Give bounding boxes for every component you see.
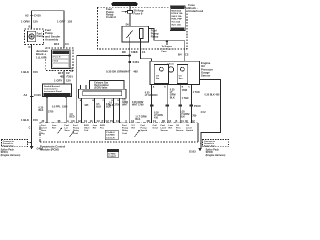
svg-text:Sen: Sen — [179, 78, 184, 80]
svg-text:Speed: Speed — [141, 130, 148, 132]
svg-text:C2=RED: C2=RED — [106, 135, 115, 137]
svg-text:Underhood: Underhood — [188, 9, 203, 13]
svg-text:6B: 6B — [147, 120, 150, 123]
svg-text:C4: C4 — [65, 42, 69, 46]
svg-text:B4: B4 — [178, 52, 182, 56]
svg-text:Ref: Ref — [52, 128, 56, 130]
wire: relay coil ground pin E8 C1 to oil pressure switch — [141, 42, 152, 61]
svg-text:Pump: Pump — [37, 35, 44, 38]
svg-text:2750: 2750 — [48, 111, 54, 114]
svg-text:1788: 1788 — [182, 89, 188, 92]
svg-text:Fuse 8: Fuse 8 — [53, 57, 61, 59]
wire: pump ground 1 BLK 150 down to G401 — [31, 45, 33, 146]
svg-text:A: A — [67, 120, 69, 123]
svg-text:C1 BLU: C1 BLU — [108, 151, 116, 153]
wire: fuel level sensor signal to PCM — [46, 97, 48, 123]
svg-text:FUEL PMP: FUEL PMP — [171, 19, 182, 21]
svg-text:150: 150 — [33, 70, 38, 74]
svg-text:BLK: BLK — [180, 116, 185, 119]
svg-text:Ref: Ref — [169, 128, 173, 130]
svg-text:0.35 DK GRN/WHT: 0.35 DK GRN/WHT — [106, 70, 131, 74]
svg-text:Control: Control — [106, 15, 116, 19]
node splice dot — [65, 96, 67, 98]
svg-text:150: 150 — [33, 118, 38, 122]
fuse F1 fuel pump 20A — [129, 6, 131, 11]
svg-text:Cntl: Cntl — [84, 129, 89, 132]
EGR connector strip — [78, 89, 126, 98]
svg-text:BLK: BLK — [135, 118, 140, 121]
underhood fuse block dashed box — [97, 7, 187, 49]
svg-text:Exhaust Gas: Exhaust Gas — [94, 81, 109, 84]
fuel pump relay K1 — [122, 26, 149, 42]
PCM connector colors box lower — [107, 149, 119, 157]
svg-text:Engine Harn: Engine Harn — [204, 145, 216, 147]
svg-text:C410: C410 — [34, 14, 41, 18]
PCM pin row labels — [42, 120, 196, 123]
PCM fuel level driver arrow — [58, 128, 63, 134]
svg-text:Connector In: Connector In — [44, 88, 58, 91]
oil pressure sensor contact — [181, 67, 185, 71]
svg-text:S161: S161 — [133, 60, 140, 64]
ground G401 symbol — [30, 146, 34, 150]
junction block 1 dashed box — [46, 48, 73, 71]
wire: EGR pin A to PCM — [81, 98, 83, 123]
svg-text:Ref: Ref — [93, 128, 97, 130]
wire: junction block output 1 GRY 120 to connector box — [63, 71, 65, 84]
svg-text:Cntrl: Cntrl — [122, 132, 127, 135]
svg-text:INJ 1 15A: INJ 1 15A — [171, 23, 181, 26]
svg-text:Sens: Sens — [65, 130, 71, 132]
svg-text:2759: 2759 — [115, 103, 121, 106]
wire: oil sensor pin C to P100 to PCM — [190, 85, 192, 123]
PCM internal pin function labels — [41, 125, 194, 135]
svg-text:Fans: Fans — [162, 51, 168, 53]
relay switch contact — [127, 31, 133, 39]
svg-text:120: 120 — [66, 78, 71, 82]
svg-text:IGN E 15A: IGN E 15A — [171, 15, 182, 18]
svg-text:Sensor: Sensor — [201, 74, 211, 78]
gauge symbol — [168, 67, 173, 72]
svg-text:1 ORN: 1 ORN — [21, 20, 30, 24]
svg-text:Fuse 9: Fuse 9 — [134, 11, 143, 15]
wire: relay coil feed to oil pressure sensor — [149, 29, 185, 62]
splice pack SP401 text — [3, 140, 15, 147]
svg-text:BLK: BLK — [96, 106, 101, 109]
svg-text:B: B — [29, 24, 31, 28]
wire: branch left to PCM pin — [77, 56, 130, 123]
splice pack SP400 dashed box — [203, 140, 229, 147]
svg-text:Sensor: Sensor — [176, 130, 184, 132]
ground G103 symbol — [198, 148, 202, 152]
svg-text:MAXI 40A: MAXI 40A — [171, 9, 181, 12]
HOT AT ALL TIMES label — [112, 2, 138, 6]
wire: fuel pump feed 1 GRY 120 from junction block up and left to pump — [32, 11, 64, 48]
svg-text:LT GRN: LT GRN — [145, 94, 154, 97]
svg-text:Recirculation: Recirculation — [94, 84, 109, 87]
wire: 0.35 BLK 450 to ground G103 — [200, 80, 221, 149]
fuel pump and sender assembly dashed box — [25, 29, 44, 45]
svg-text:C3=CLR: C3=CLR — [106, 137, 115, 139]
svg-text:G401: G401 — [37, 147, 44, 151]
wire: EGR pin E to PCM — [119, 98, 121, 123]
svg-text:Assembly: Assembly — [45, 38, 59, 42]
text labels group — [21, 3, 220, 130]
svg-text:A4: A4 — [24, 93, 28, 97]
label powertrain control module — [40, 144, 65, 151]
svg-text:C1: C1 — [142, 50, 146, 54]
splice pack SP400 text — [204, 140, 216, 147]
svg-text:D: D — [29, 45, 31, 49]
node junction — [129, 55, 131, 57]
svg-text:10 A: 10 A — [53, 60, 58, 63]
wire: relay switch output pin B8 C3 down to PCM — [129, 42, 131, 123]
wire: SP401 dashed link — [27, 142, 31, 144]
svg-text:1589: 1589 — [62, 106, 68, 109]
svg-text:C410: C410 — [34, 93, 41, 97]
svg-text:Grnd: Grnd — [153, 128, 159, 130]
svg-text:C1=BLU: C1=BLU — [106, 132, 115, 134]
fuse block inside junction block — [52, 50, 70, 69]
svg-text:C3 WHT: C3 WHT — [108, 156, 117, 158]
svg-text:465: 465 — [133, 70, 138, 74]
PCM connector legend box — [105, 130, 118, 140]
PCM relay driver arrow — [70, 131, 75, 137]
node splice S161 — [129, 61, 131, 63]
svg-text:1 TAN: 1 TAN — [182, 97, 189, 100]
svg-text:Relay: Relay — [151, 35, 159, 39]
wire: EGR pin C to PCM — [103, 98, 105, 123]
svg-text:(Engine Harness): (Engine Harness) — [1, 154, 21, 157]
node splice dot — [46, 96, 48, 98]
svg-text:B: B — [176, 120, 178, 123]
svg-text:FUEL PMP: FUEL PMP — [53, 52, 65, 54]
svg-text:Sensor: Sensor — [161, 130, 169, 132]
svg-text:TCC 15A: TCC 15A — [171, 21, 180, 24]
svg-text:Check: Check — [167, 63, 174, 65]
svg-text:1 GRY: 1 GRY — [57, 19, 65, 23]
to cooling fans reference arrow — [166, 41, 168, 45]
wire: pump supply into assembly — [31, 13, 33, 29]
oil pressure switch contact — [160, 67, 164, 71]
fuse table rows — [171, 7, 185, 31]
svg-text:BLK: BLK — [170, 96, 175, 99]
svg-text:WHT 1799: WHT 1799 — [132, 104, 144, 107]
svg-text:(Engine Harness): (Engine Harness) — [206, 154, 226, 157]
engine oil pressure gauge sensor box — [150, 61, 200, 84]
svg-text:HOT AT ALL TIMES: HOT AT ALL TIMES — [113, 2, 136, 6]
svg-text:C: C — [29, 127, 31, 130]
svg-text:Instrument Panel: Instrument Panel — [44, 90, 62, 93]
svg-text:4 C2: 4 C2 — [201, 111, 207, 114]
connector P100 terminals — [150, 104, 193, 106]
svg-text:BLK: BLK — [109, 104, 114, 107]
svg-text:B10: B10 — [54, 42, 60, 46]
wire: PCM ground to G103 — [197, 138, 199, 142]
svg-text:0.35 BLK 450: 0.35 BLK 450 — [205, 94, 221, 97]
svg-text:P100: P100 — [194, 104, 201, 108]
splice pack SP401 dashed box — [2, 140, 28, 147]
svg-text:Switch: Switch — [186, 129, 194, 132]
svg-text:Ref: Ref — [132, 128, 136, 130]
svg-text:1 BLK: 1 BLK — [21, 118, 29, 122]
wire: SP400 dashed link — [200, 142, 203, 144]
svg-text:1 TAN: 1 TAN — [193, 91, 200, 94]
svg-text:Engine Harn: Engine Harn — [3, 145, 15, 147]
connector C410 note box — [43, 84, 72, 97]
svg-text:4B: 4B — [162, 120, 165, 123]
node A4 C410 connector tick — [30, 96, 34, 98]
relay coil — [140, 29, 144, 39]
svg-text:RED: RED — [69, 116, 74, 119]
oil pressure sensor element — [177, 65, 187, 84]
svg-text:410: 410 — [154, 94, 159, 97]
svg-text:E8: E8 — [134, 50, 138, 54]
node A2 C410 connector tick — [30, 15, 34, 17]
fuse label pointer arrow — [125, 11, 128, 13]
svg-text:Harness C410: Harness C410 — [45, 93, 60, 96]
wire: EGR pin B to PCM — [93, 98, 95, 123]
svg-text:435: 435 — [84, 104, 89, 107]
svg-text:Sw: Sw — [156, 78, 159, 80]
PCM box outline — [40, 123, 198, 142]
svg-text:ECM B 15A: ECM B 15A — [171, 12, 183, 15]
junction block fuse rows — [53, 51, 69, 67]
fuel pump motor M1 — [27, 31, 35, 42]
svg-text:A2: A2 — [25, 14, 29, 18]
wire: oil sensor pin A to P100 to PCM — [151, 85, 153, 123]
svg-text:120: 120 — [68, 19, 73, 23]
svg-text:C2: C2 — [185, 52, 189, 56]
svg-text:B8: B8 — [122, 50, 126, 54]
svg-text:4B: 4B — [57, 120, 60, 123]
svg-text:WHT: WHT — [122, 104, 128, 107]
EGR valve box — [90, 81, 125, 90]
svg-text:1 BLK: 1 BLK — [21, 70, 29, 74]
svg-text:0.5 PPL: 0.5 PPL — [52, 106, 61, 109]
wire: oil sensor pin E to P100 to PCM — [166, 85, 168, 123]
svg-text:1789: 1789 — [191, 115, 197, 118]
EGR pin stubs — [80, 85, 82, 89]
svg-text:G103: G103 — [189, 150, 196, 154]
wire: EGR pin D to PCM — [112, 98, 114, 123]
svg-text:120: 120 — [33, 20, 38, 24]
svg-text:BLK: BLK — [39, 109, 44, 112]
svg-text:(EGR) Valve: (EGR) Valve — [94, 88, 108, 90]
wire: low reference to PCM — [65, 97, 67, 123]
wire: oil sensor pin B to P100 to PCM — [179, 85, 181, 123]
PCM driver arrow symbol — [135, 130, 140, 137]
fuse table box underhood — [170, 6, 185, 30]
oil pressure switch element — [154, 65, 168, 84]
svg-text:1 (L/UF): 1 (L/UF) — [36, 55, 46, 59]
svg-text:1 GRY: 1 GRY — [54, 78, 62, 82]
